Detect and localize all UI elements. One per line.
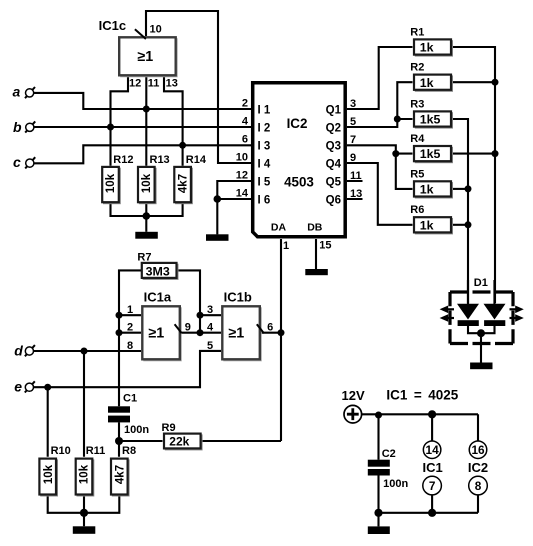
- svg-text:10k: 10k: [141, 173, 153, 193]
- svg-text:15: 15: [319, 239, 331, 251]
- svg-text:I 4: I 4: [258, 158, 271, 170]
- svg-text:IC2: IC2: [287, 116, 308, 131]
- svg-text:d: d: [14, 343, 23, 359]
- svg-text:11: 11: [148, 78, 160, 90]
- svg-text:DB: DB: [307, 221, 323, 233]
- svg-text:9: 9: [350, 152, 356, 164]
- svg-text:7: 7: [429, 479, 436, 493]
- svg-text:≥1: ≥1: [137, 49, 153, 65]
- svg-text:10k: 10k: [79, 464, 91, 484]
- svg-text:1k: 1k: [420, 76, 434, 90]
- svg-text:Q5: Q5: [326, 176, 342, 188]
- svg-text:Q1: Q1: [326, 104, 342, 116]
- svg-text:1k5: 1k5: [420, 147, 441, 161]
- svg-text:R12: R12: [113, 154, 133, 166]
- svg-text:1: 1: [283, 240, 289, 252]
- svg-text:5: 5: [207, 340, 213, 352]
- svg-text:14: 14: [426, 443, 440, 457]
- svg-text:11: 11: [350, 170, 362, 182]
- svg-text:R2: R2: [410, 62, 424, 74]
- svg-text:12: 12: [129, 78, 141, 90]
- svg-text:100n: 100n: [124, 424, 149, 436]
- svg-text:4k7: 4k7: [178, 174, 190, 193]
- svg-text:10: 10: [150, 24, 162, 36]
- svg-text:I 6: I 6: [258, 194, 271, 206]
- svg-text:6: 6: [242, 134, 248, 146]
- svg-text:10: 10: [236, 152, 248, 164]
- svg-text:Q4: Q4: [326, 158, 342, 170]
- svg-text:4k7: 4k7: [115, 465, 127, 484]
- svg-text:1k: 1k: [420, 218, 434, 232]
- svg-text:7: 7: [350, 134, 356, 146]
- svg-text:R5: R5: [410, 168, 424, 180]
- svg-text:R6: R6: [410, 204, 424, 216]
- svg-text:14: 14: [236, 188, 249, 200]
- svg-text:IC1a: IC1a: [144, 290, 172, 305]
- svg-text:16: 16: [471, 443, 485, 457]
- svg-text:I 2: I 2: [258, 122, 271, 134]
- svg-text:9: 9: [185, 322, 191, 334]
- svg-text:≥1: ≥1: [148, 326, 164, 342]
- svg-text:IC1c: IC1c: [99, 18, 126, 33]
- svg-text:R9: R9: [162, 422, 176, 434]
- svg-text:R10: R10: [51, 445, 71, 457]
- svg-text:100n: 100n: [383, 478, 408, 490]
- svg-text:C2: C2: [382, 448, 396, 460]
- svg-text:3M3: 3M3: [146, 264, 170, 278]
- svg-text:4: 4: [207, 322, 214, 334]
- svg-text:Q3: Q3: [326, 140, 341, 152]
- svg-text:R13: R13: [150, 154, 170, 166]
- svg-text:1k: 1k: [420, 41, 434, 55]
- svg-text:c: c: [13, 154, 21, 170]
- svg-text:1k: 1k: [420, 183, 434, 197]
- svg-text:3: 3: [350, 98, 356, 110]
- svg-text:3: 3: [207, 304, 213, 316]
- svg-text:2: 2: [127, 322, 133, 334]
- svg-text:8: 8: [475, 479, 482, 493]
- svg-text:5: 5: [350, 116, 356, 128]
- svg-text:≥1: ≥1: [228, 326, 244, 342]
- svg-text:IC1b: IC1b: [224, 290, 252, 305]
- svg-text:b: b: [13, 119, 22, 135]
- svg-text:R4: R4: [410, 133, 425, 145]
- svg-text:22k: 22k: [169, 434, 189, 448]
- svg-text:D1: D1: [474, 277, 488, 289]
- svg-text:13: 13: [166, 78, 178, 90]
- svg-text:I 5: I 5: [258, 176, 271, 188]
- svg-text:1: 1: [127, 304, 133, 316]
- svg-text:12V: 12V: [342, 388, 365, 403]
- svg-text:IC2: IC2: [468, 460, 488, 475]
- svg-text:R11: R11: [86, 445, 106, 457]
- svg-text:R7: R7: [137, 252, 151, 264]
- svg-text:8: 8: [127, 340, 133, 352]
- svg-text:I 3: I 3: [258, 140, 271, 152]
- svg-text:R3: R3: [410, 98, 424, 110]
- svg-text:R1: R1: [410, 26, 424, 38]
- svg-text:e: e: [14, 378, 22, 394]
- svg-text:10k: 10k: [105, 173, 117, 193]
- svg-text:Q2: Q2: [326, 122, 341, 134]
- svg-text:IC1: IC1: [422, 460, 442, 475]
- svg-text:12: 12: [236, 170, 248, 182]
- svg-text:Q6: Q6: [326, 194, 341, 206]
- svg-text:13: 13: [350, 188, 362, 200]
- svg-text:I 1: I 1: [258, 104, 271, 116]
- svg-text:2: 2: [242, 98, 248, 110]
- svg-text:10k: 10k: [43, 464, 55, 484]
- svg-text:a: a: [13, 84, 21, 100]
- svg-text:1k5: 1k5: [420, 113, 441, 127]
- svg-text:6: 6: [267, 322, 273, 334]
- svg-text:4503: 4503: [284, 174, 314, 189]
- svg-text:4: 4: [242, 116, 249, 128]
- svg-text:R14: R14: [186, 154, 207, 166]
- svg-text:DA: DA: [271, 221, 287, 233]
- svg-text:C1: C1: [123, 393, 137, 405]
- svg-text:IC1 = 4025: IC1 = 4025: [386, 388, 458, 403]
- svg-text:R8: R8: [122, 445, 136, 457]
